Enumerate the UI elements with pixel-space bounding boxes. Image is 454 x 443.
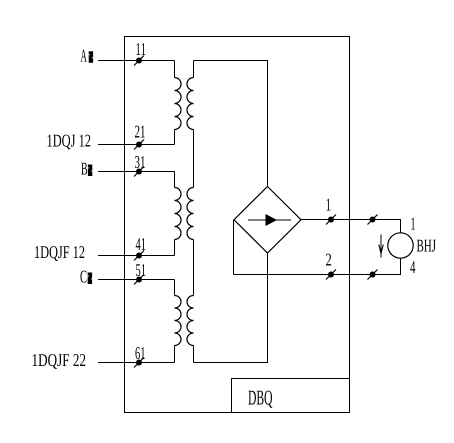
wire pin 41 bbox=[98, 255, 175, 257]
terminal dot pin 51 bbox=[134, 275, 144, 285]
current direction arrow bbox=[379, 235, 384, 258]
label DBQ bbox=[248, 391, 272, 408]
relay label 1DQJ 12 bbox=[48, 135, 91, 150]
terminal dot pin 31 bbox=[134, 167, 144, 177]
wire secondary bottom to bridge bbox=[194, 253, 268, 363]
wire output 2 (to relay bottom) bbox=[234, 258, 401, 275]
terminal dot output 2 outside bbox=[368, 270, 378, 280]
terminal dot output 1 inside bbox=[326, 215, 336, 225]
phase label C bbox=[80, 271, 92, 284]
pin label 21 bbox=[135, 126, 145, 138]
wire pin 11 (A phase input) bbox=[98, 60, 175, 62]
relay label 1DQJF 12 bbox=[35, 246, 84, 261]
node label 2 bbox=[326, 254, 331, 266]
phase label B bbox=[81, 163, 92, 176]
terminal dot pin 41 bbox=[134, 251, 144, 261]
relay coil BHJ circle bbox=[388, 233, 413, 258]
relay name BHJ bbox=[417, 240, 436, 252]
outer enclosure box bbox=[125, 37, 350, 413]
pin label 51 bbox=[136, 264, 145, 276]
wire pin 61 bbox=[98, 362, 175, 364]
transformer T1 primary winding bbox=[175, 61, 182, 145]
relay pin label 1 bbox=[411, 218, 415, 230]
terminal dot pin 61 bbox=[134, 358, 144, 368]
pin label 11 bbox=[136, 43, 145, 55]
transformer T2 secondary winding bbox=[187, 188, 194, 240]
node label 1 bbox=[326, 199, 330, 211]
wire secondary top to bridge bbox=[194, 61, 268, 187]
pin label 31 bbox=[135, 156, 145, 168]
pin label 61 bbox=[135, 347, 144, 359]
relay pin label 4 bbox=[410, 261, 415, 273]
wire bridge left vertex down to output 2 bbox=[233, 220, 235, 275]
relay label 1DQJF 22 bbox=[33, 354, 86, 369]
transformer T2 primary winding bbox=[175, 172, 182, 256]
DBQ nameplate box bbox=[232, 379, 350, 413]
wire pin 21 bbox=[98, 144, 175, 146]
transformer T3 secondary winding bbox=[187, 240, 194, 363]
phase label A bbox=[81, 50, 94, 63]
transformer T3 primary winding bbox=[175, 280, 182, 363]
pin label 41 bbox=[136, 238, 146, 250]
bridge rectifier diamond bbox=[234, 187, 301, 254]
terminal dot pin 21 bbox=[134, 140, 144, 150]
wire output 1 (bridge right vertex to relay) bbox=[301, 220, 401, 234]
wire pin 31 (B phase input) bbox=[98, 171, 175, 173]
terminal dot output 2 inside bbox=[326, 270, 336, 280]
transformer T1 secondary winding bbox=[187, 61, 194, 188]
terminal dot pin 11 bbox=[134, 56, 144, 66]
diode arrow inside bridge bbox=[248, 214, 291, 226]
terminal dot output 1 outside bbox=[368, 215, 378, 225]
wire pin 51 (C phase input) bbox=[98, 279, 175, 281]
